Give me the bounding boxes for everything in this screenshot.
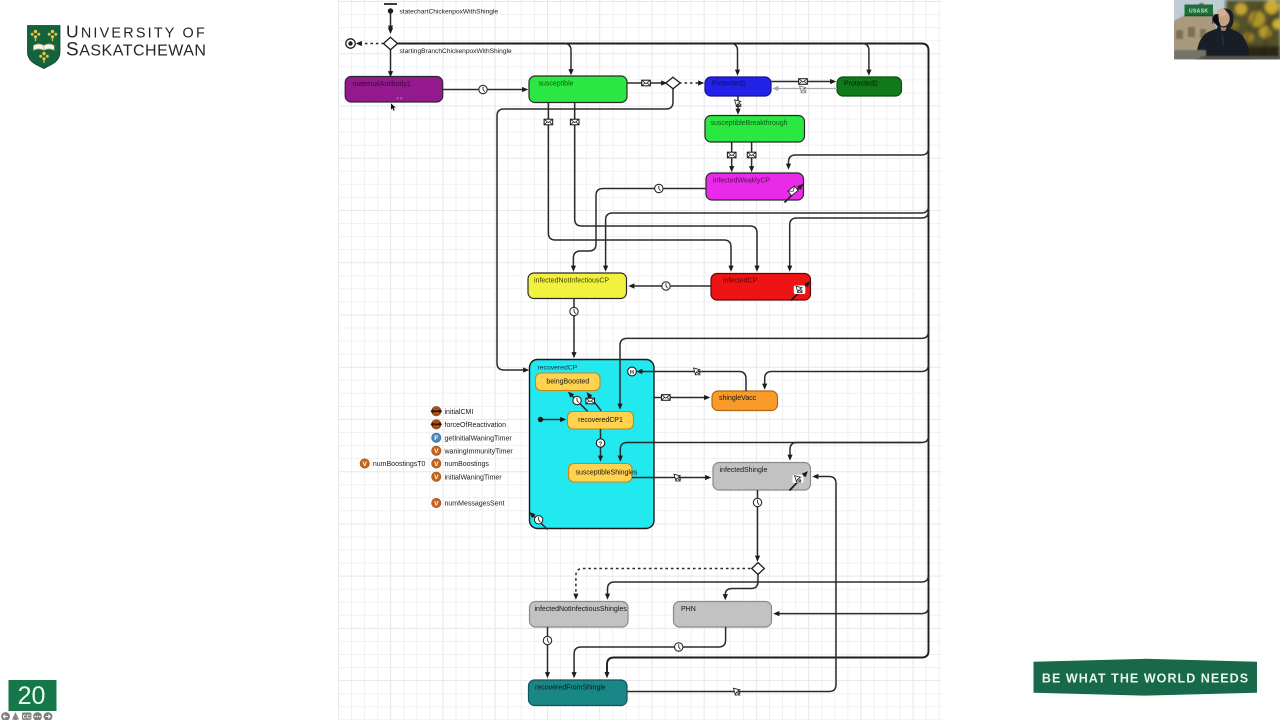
svg-text:infectedNotInfectiousCP: infectedNotInfectiousCP xyxy=(534,278,609,285)
wire: shingleVacc top up and left toward H circle xyxy=(642,372,746,392)
state infectedNotInfectiousShingles xyxy=(530,602,629,628)
wire: recoveredCP1 diagonal up to beingBoosted with timeout xyxy=(572,396,588,412)
wire: recoveredCP1 down to susceptibleShingles with condition xyxy=(600,429,602,456)
svg-text:?: ? xyxy=(599,442,603,448)
svg-text:PHN: PHN xyxy=(681,606,696,613)
wire: infectedNotInfectiousCP down to recoveredCP composite xyxy=(573,299,575,353)
wire: branch down into susceptible top xyxy=(564,44,571,70)
wire: branch down into Protected1 top xyxy=(731,44,738,71)
selection dots on maternalAntibody1 xyxy=(397,97,399,99)
wire: Protected1 to Protected2 with message trigger xyxy=(771,81,831,83)
clock on recoveredCP corner diagonal xyxy=(534,516,542,524)
clock below infectedShingle xyxy=(753,498,761,506)
bottom branch diamond xyxy=(752,563,765,575)
state PHN xyxy=(674,602,772,628)
svg-text:CC: CC xyxy=(23,714,31,720)
branch diamond startingBranchChickenpoxWithShingle xyxy=(384,37,512,55)
wire: susceptible right message wire down to infectedCP xyxy=(575,103,757,267)
University of Saskatchewan shield logo xyxy=(28,26,61,69)
state infectedShingle xyxy=(713,463,811,491)
decoration on infectedShingle xyxy=(790,475,804,491)
action decoration on infectedCP xyxy=(791,285,806,300)
wire: branch diamond to Protected1 (dashed) xyxy=(679,82,699,84)
cursor icon on susceptibleShingles to infectedShingle xyxy=(674,474,681,481)
state Protected2 xyxy=(837,77,902,96)
svg-text:shingleVacc: shingleVacc xyxy=(719,395,757,402)
svg-text:20: 20 xyxy=(18,682,46,710)
svg-text:Protected2: Protected2 xyxy=(844,81,878,88)
envelope below susceptibleBreakthrough right xyxy=(747,152,756,158)
wire: bus branch into infectedWeaklyCP top right xyxy=(789,148,929,164)
clock on maternalAntibody1 to susceptible xyxy=(479,85,487,93)
clock below infectedNotInfectiousCP xyxy=(570,307,578,315)
envelope below susceptibleBreakthrough left xyxy=(727,152,736,158)
svg-text:recoveredCP: recoveredCP xyxy=(538,365,578,372)
svg-text:startingBranchChickenpoxWithSh: startingBranchChickenpoxWithShingle xyxy=(400,48,512,55)
state recoveredCP1 xyxy=(568,412,634,430)
svg-text:initialWaningTimer: initialWaningTimer xyxy=(445,474,503,481)
wire: diagonal timeout into recoveredCP bottom-left corner xyxy=(534,516,548,530)
wire: infectedCP to infectedNotInfectiousCP with clock xyxy=(634,285,711,287)
send-message decoration on infectedWeaklyCP xyxy=(785,186,800,203)
svg-text:Protected1: Protected1 xyxy=(712,81,746,88)
state recoveredFromShingle xyxy=(529,680,628,706)
svg-text:infectedWeaklyCP: infectedWeaklyCP xyxy=(713,178,770,185)
variable getInitialWaningTimer xyxy=(432,433,513,442)
gray cursor icon on Protected2 to Protected1 wire xyxy=(800,86,807,93)
envelope on susceptible to branch xyxy=(642,80,651,86)
state beingBoosted xyxy=(536,373,601,391)
state Protected1 xyxy=(705,77,771,96)
state infectedWeaklyCP xyxy=(706,173,804,200)
wire: infectedWeaklyCP left with clock jogging down to infectedNotInfectiousCP xyxy=(573,189,706,267)
wire: bottom diamond dashed to infectedNotInfectiousShingles xyxy=(576,569,751,595)
wire: transition startingBranch to final circle (dashed) xyxy=(362,43,385,45)
envelope on recoveredCP1 to beingBoosted message diagonal xyxy=(586,398,595,404)
svg-text:numBoostingsT0: numBoostingsT0 xyxy=(373,461,426,468)
envelope below susceptible left xyxy=(544,119,553,125)
wire: bus branch to history H and from shingleVacc top xyxy=(765,365,929,385)
svg-text:statechartChickenpoxWithShingl: statechartChickenpoxWithShingle xyxy=(400,9,499,16)
svg-text:susceptibleShingles: susceptibleShingles xyxy=(576,470,638,477)
state susceptibleShingles xyxy=(569,464,638,483)
variable initialWaningTimer xyxy=(432,472,503,481)
svg-text:waningImmunityTimer: waningImmunityTimer xyxy=(444,448,514,455)
wire: infectedShingle down to bottom branch diamond with clock xyxy=(757,490,759,556)
cursor icon on wire into history H xyxy=(694,368,701,375)
wire: main bus from startingBranch diamond along top and right side down to recoveredFromShingle xyxy=(397,44,929,673)
statechart entry point icon xyxy=(384,4,498,34)
svg-text:recoveredCP1: recoveredCP1 xyxy=(578,417,623,424)
svg-text:H: H xyxy=(630,370,634,376)
wire: bus branch into infectedNotInfectiousShingles xyxy=(608,575,929,594)
svg-text:susceptibleBreakthrough: susceptibleBreakthrough xyxy=(711,120,788,127)
clock on recoveredCP1 to beingBoosted diagonal xyxy=(573,396,581,404)
svg-text:infectedNotInfectiousShingles: infectedNotInfectiousShingles xyxy=(535,606,628,613)
envelope on Protected1 to Protected2 xyxy=(799,79,808,85)
clock on infectedCP to infectedNotInfectiousCP xyxy=(662,282,670,290)
state susceptible xyxy=(529,76,627,103)
initial state pointer dot xyxy=(538,417,543,422)
envelope below susceptible right xyxy=(570,119,579,125)
wire: recoveredCP right to shingleVacc with message trigger xyxy=(654,397,705,399)
cursor icon on Protected1 to susceptibleBreakthrough xyxy=(735,100,742,107)
state maternalAntibody1 xyxy=(345,77,443,103)
wire: susceptible left message wire down to infectedCP xyxy=(548,103,731,267)
condition pseudostate question mark xyxy=(596,439,604,448)
wire: branch down into Protected2 top xyxy=(862,44,869,71)
clock on PHN to recoveredFromShingle xyxy=(675,643,683,651)
svg-text:recoveredFromShingle: recoveredFromShingle xyxy=(535,685,606,692)
svg-text:SASKATCHEWAN: SASKATCHEWAN xyxy=(66,40,206,61)
clock on infectedWeaklyCP left wire xyxy=(655,184,663,192)
composite state recoveredCP xyxy=(530,360,655,529)
wire: bus branch down into infectedNotInfectiousCP xyxy=(606,206,929,266)
svg-text:BE WHAT THE WORLD NEEDS: BE WHAT THE WORLD NEEDS xyxy=(1042,671,1249,685)
variable waningImmunityTimer xyxy=(432,446,514,455)
wire: susceptibleBreakthrough down-right to infectedWeaklyCP xyxy=(751,142,753,167)
wire: PHN down and left to recoveredFromShingle with clock xyxy=(574,627,726,673)
state infectedNotInfectiousCP xyxy=(528,273,627,299)
wire: recoveredCP1 diagonal up to beingBoosted with message xyxy=(590,397,601,411)
wire: bus branch down into infectedShingle top xyxy=(790,443,922,456)
variable numMessagesSent xyxy=(432,498,505,507)
svg-text:forceOfReactivation: forceOfReactivation xyxy=(445,422,507,429)
wire: infectedNotInfectiousShingles down to recoveredFromShingle with clock xyxy=(547,627,549,673)
University of Saskatchewan wordmark xyxy=(66,22,207,61)
svg-text:numBoostings: numBoostings xyxy=(445,461,490,468)
cursor icon on recoveredFromShingle loop xyxy=(733,688,740,695)
history pseudostate H xyxy=(628,367,637,376)
state infectedCP xyxy=(711,274,811,301)
wire: bus branch down into recoveredCP1 xyxy=(620,332,929,405)
branch diamond after susceptible xyxy=(666,77,680,89)
svg-text:USASK: USASK xyxy=(1189,8,1209,14)
svg-text:initialCMI: initialCMI xyxy=(445,409,474,416)
state susceptibleBreakthrough xyxy=(705,116,805,143)
diagram grid xyxy=(339,0,942,720)
variable numBoostingsT0 xyxy=(360,459,426,468)
wire: susceptible to branch diamond with message trigger xyxy=(627,82,662,84)
svg-text:susceptible: susceptible xyxy=(539,81,574,88)
svg-text:getInitialWaningTimer: getInitialWaningTimer xyxy=(445,435,513,442)
clock below infectedNotInfectiousShingles xyxy=(543,636,551,644)
wire: statechart entry pointer line xyxy=(390,14,392,27)
variable initialCMI xyxy=(431,406,474,416)
svg-text:infectedCP: infectedCP xyxy=(723,278,758,285)
variable numBoostings xyxy=(432,459,490,468)
wire: maternalAntibody1 to susceptible with timeout clock xyxy=(442,89,523,91)
player control icons xyxy=(1,712,52,720)
webcam video feed xyxy=(1172,0,1280,60)
BE WHAT THE WORLD NEEDS banner xyxy=(1034,659,1258,696)
svg-text:infectedShingle: infectedShingle xyxy=(720,467,768,474)
wire: bus branch down into infectedCP right xyxy=(790,211,929,266)
svg-text:maternalAntibody1: maternalAntibody1 xyxy=(353,81,411,88)
wire: bus branch into susceptibleShingles inside composite xyxy=(620,436,928,456)
wire: recoveredFromShingle loop right and up into infectedShingle xyxy=(627,477,836,692)
envelope on recoveredCP to shingleVacc xyxy=(662,395,671,401)
slide number 20 xyxy=(9,680,57,711)
mouse cursor captured near maternalAntibody1 xyxy=(391,103,396,110)
svg-text:beingBoosted: beingBoosted xyxy=(546,378,589,385)
svg-text:numMessagesSent: numMessagesSent xyxy=(445,501,505,508)
wire: susceptibleBreakthrough down-left to infectedWeaklyCP xyxy=(731,142,733,167)
wire: bus branch into PHN right edge xyxy=(779,607,929,614)
wire: Protected2 back to Protected1 (gray) xyxy=(778,88,837,90)
wire: startingBranch diamond down to maternalAntibody1 xyxy=(390,50,392,72)
wire: initial state pointer to recoveredCP1 xyxy=(543,419,561,421)
state shingleVacc xyxy=(712,391,778,411)
variable forceOfReactivation xyxy=(431,420,507,430)
wire: branch diamond loop down left side into recoveredCP left edge xyxy=(497,89,673,371)
final state circle xyxy=(346,39,355,48)
wire: bottom diamond S-curve into PHN top xyxy=(725,574,758,595)
wire: Protected1 down to susceptibleBreakthrough xyxy=(737,96,739,109)
wire: susceptibleShingles to infectedShingle xyxy=(632,477,706,479)
